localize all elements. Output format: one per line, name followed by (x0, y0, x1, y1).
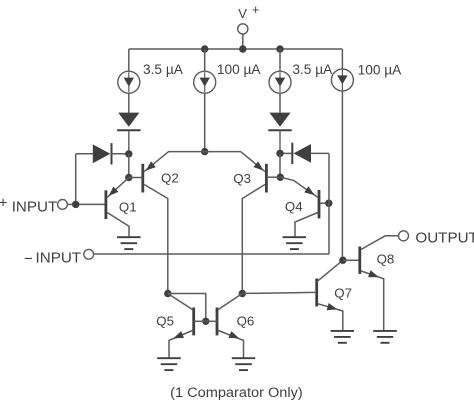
node dot Q4 base (325, 200, 332, 207)
wire left column (128, 154, 130, 178)
svg-text:3.5 µA: 3.5 µA (143, 62, 184, 77)
diode D2 (left clamp) (76, 143, 129, 164)
current source I3 (3.5 uA) (269, 71, 291, 93)
ground Q8 (373, 331, 397, 343)
node dot left clamp (125, 150, 132, 157)
diode D4 (right clamp) (280, 143, 329, 164)
current source I2 (100 uA) (194, 71, 216, 93)
transistor Q5 (NPN) (168, 294, 206, 359)
ground Q4 (283, 237, 307, 249)
current source I4 (100 uA) (331, 69, 353, 91)
ground Q6 (232, 358, 255, 370)
node dot rail-V+ (239, 45, 246, 52)
node dot I2 emitters (201, 148, 208, 155)
svg-text:+: + (252, 2, 260, 17)
transistor Q1 (PNP) (106, 178, 129, 238)
wire top rail (129, 48, 343, 50)
node dot Q3 coll / Q7 base (239, 290, 246, 297)
wire I1 column (128, 49, 130, 113)
terminal OUTPUT (399, 230, 474, 247)
svg-text:Q7: Q7 (334, 286, 352, 301)
wire Q8 base (343, 259, 359, 261)
wire Q7 base (242, 292, 315, 293)
transistor Q7 (NPN) (317, 260, 343, 331)
svg-text:100 µA: 100 µA (358, 62, 403, 77)
node dot Q8 base (339, 257, 346, 264)
svg-text:OUTPUT: OUTPUT (415, 230, 474, 247)
svg-text:INPUT: INPUT (36, 249, 82, 266)
node dot Q2 coll / mirror (164, 290, 171, 297)
wire V+ stem (242, 34, 244, 49)
wire Q4 base riser (328, 153, 330, 254)
node dot Q5/Q6 bases (202, 318, 209, 325)
svg-text:Q2: Q2 (161, 171, 179, 186)
node dot rail-I3 (276, 45, 283, 52)
transistor Q3 (PNP) (205, 152, 281, 294)
svg-text:Q4: Q4 (285, 199, 303, 214)
wire I2 column (204, 49, 206, 152)
svg-text:Q3: Q3 (233, 171, 251, 186)
svg-text:Q5: Q5 (156, 314, 174, 329)
current source I1 (3.5 uA) (118, 71, 140, 93)
wire mirror base tie (168, 294, 206, 322)
terminal + INPUT (0, 195, 67, 216)
terminal - INPUT (24, 249, 94, 267)
node dot rail-I2 (201, 45, 208, 52)
svg-text:−: − (24, 250, 33, 267)
ground Q7 (331, 331, 355, 343)
transistor Q4 (PNP) (280, 177, 328, 237)
svg-text:Q8: Q8 (377, 251, 395, 266)
wire right column (279, 153, 281, 177)
terminal V+ (238, 2, 260, 34)
ground Q5 (157, 358, 181, 370)
diode D3 (268, 113, 291, 154)
svg-text:3.5 µA: 3.5 µA (292, 62, 333, 77)
wire +input to Q1 base (67, 203, 104, 205)
svg-text:(1 Comparator Only): (1 Comparator Only) (170, 385, 303, 400)
svg-text:V: V (238, 6, 247, 21)
transistor Q8 (NPN) (360, 236, 399, 331)
wire -input horizontal (94, 253, 329, 255)
svg-text:+: + (0, 195, 8, 212)
svg-text:Q6: Q6 (237, 314, 255, 329)
wire D2 anode to +input node (75, 154, 77, 205)
diode D1 (117, 113, 140, 154)
transistor Q6 (NPN) (206, 294, 244, 359)
node dot Q3 base (277, 174, 284, 181)
node dot +input/D2 (72, 201, 79, 208)
wire I4 column (341, 49, 343, 260)
svg-text:100 µA: 100 µA (217, 62, 262, 77)
wire I3 column (279, 49, 281, 113)
node dot Q2 base (125, 174, 132, 181)
svg-text:Q1: Q1 (119, 199, 137, 214)
svg-text:INPUT: INPUT (12, 199, 58, 216)
transistor Q2 (PNP) (129, 152, 205, 294)
ground Q1 (117, 237, 141, 249)
node dot right clamp (276, 150, 283, 157)
